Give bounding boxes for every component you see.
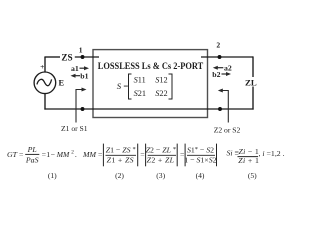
svg-text:Zi − 1: Zi − 1 bbox=[239, 147, 260, 156]
svg-text:S12: S12 bbox=[155, 76, 167, 85]
svg-text:=: = bbox=[140, 150, 145, 159]
port 2 terminal dot bbox=[218, 55, 222, 59]
svg-text:S1* − S2: S1* − S2 bbox=[187, 145, 214, 154]
wire top-right segment bbox=[201, 56, 253, 58]
svg-text:GT=: GT= bbox=[7, 150, 24, 159]
load branch vertical wire upper bbox=[252, 56, 254, 77]
svg-text:S22: S22 bbox=[155, 89, 167, 98]
port 1 terminal dot bbox=[81, 55, 85, 59]
svg-text:S11: S11 bbox=[134, 76, 146, 85]
two-port network box U1 bbox=[93, 50, 208, 118]
wire source bottom vertical bbox=[44, 93, 46, 109]
formula (2) MM = |Z1-ZS*/Z1+ZS| bbox=[82, 144, 145, 167]
svg-text:Z1 or S1: Z1 or S1 bbox=[61, 124, 88, 133]
Z2 or S2 pointer arrow bbox=[221, 91, 228, 123]
svg-text:MM =: MM = bbox=[82, 150, 103, 159]
voltage source sine wave bbox=[37, 79, 52, 85]
svg-text:(1): (1) bbox=[48, 171, 57, 180]
formula (5) Si = (Zi-1)/(Zi+1), i=1,2 bbox=[227, 147, 285, 165]
svg-text:Zi + 1: Zi + 1 bbox=[238, 156, 259, 165]
svg-text:ZL: ZL bbox=[245, 77, 257, 87]
port 1 bottom terminal dot bbox=[81, 107, 85, 111]
svg-text:(3): (3) bbox=[156, 171, 165, 180]
formula (4) |S1*-S2/1-S1xS2| bbox=[184, 144, 216, 167]
wire top-left segment a bbox=[44, 56, 60, 58]
Z1 or S1 pointer arrow bbox=[76, 90, 83, 123]
port 2 bottom terminal dot bbox=[218, 107, 222, 111]
formula (1) GT = PL/PaS = 1 - MM^2 bbox=[7, 145, 77, 165]
svg-text:(4): (4) bbox=[196, 171, 205, 180]
a1 arrow bbox=[80, 67, 86, 69]
svg-text:PaS: PaS bbox=[25, 156, 39, 165]
matrix right bracket bbox=[169, 74, 173, 99]
b2 arrow bbox=[222, 73, 228, 75]
svg-text:2: 2 bbox=[216, 41, 220, 50]
svg-text:(5): (5) bbox=[248, 171, 257, 180]
voltage source E circle bbox=[34, 72, 56, 94]
svg-text:1 − S1×S2: 1 − S1×S2 bbox=[184, 155, 216, 164]
load branch vertical wire lower bbox=[252, 87, 254, 110]
bottom through wire bbox=[44, 108, 253, 110]
svg-text:Z1 − ZS *: Z1 − ZS * bbox=[106, 145, 136, 154]
svg-text:Z2 or S2: Z2 or S2 bbox=[214, 125, 241, 134]
svg-text:a1: a1 bbox=[71, 64, 79, 73]
svg-text:b1: b1 bbox=[80, 72, 88, 81]
svg-text:(2): (2) bbox=[115, 171, 124, 180]
svg-text:ZS: ZS bbox=[61, 52, 72, 62]
svg-text:, i =1,2 .: , i =1,2 . bbox=[259, 149, 285, 158]
svg-text:LOSSLESS Ls & Cs 2-PORT: LOSSLESS Ls & Cs 2-PORT bbox=[98, 61, 204, 72]
svg-text:Z1 + ZS: Z1 + ZS bbox=[107, 155, 134, 164]
wire source top vertical bbox=[44, 57, 46, 72]
formula (3) |Z2-ZL*/Z2+ZL| bbox=[146, 144, 185, 167]
svg-text:b2: b2 bbox=[212, 70, 220, 79]
svg-text:PL: PL bbox=[27, 145, 37, 154]
svg-text:Z2 − ZL *: Z2 − ZL * bbox=[146, 145, 176, 154]
svg-text:a2: a2 bbox=[224, 63, 232, 72]
svg-text:S =: S = bbox=[117, 81, 129, 91]
svg-text:S21: S21 bbox=[134, 89, 146, 98]
matrix left bracket bbox=[129, 74, 132, 99]
svg-text:E: E bbox=[59, 79, 65, 88]
svg-text:Z2 + ZL: Z2 + ZL bbox=[147, 155, 175, 164]
wire top-left segment b bbox=[75, 56, 99, 58]
svg-text:1: 1 bbox=[79, 45, 83, 54]
svg-text:+: + bbox=[40, 62, 44, 71]
b1 arrow bbox=[71, 74, 76, 78]
a2 arrow bbox=[213, 66, 218, 70]
